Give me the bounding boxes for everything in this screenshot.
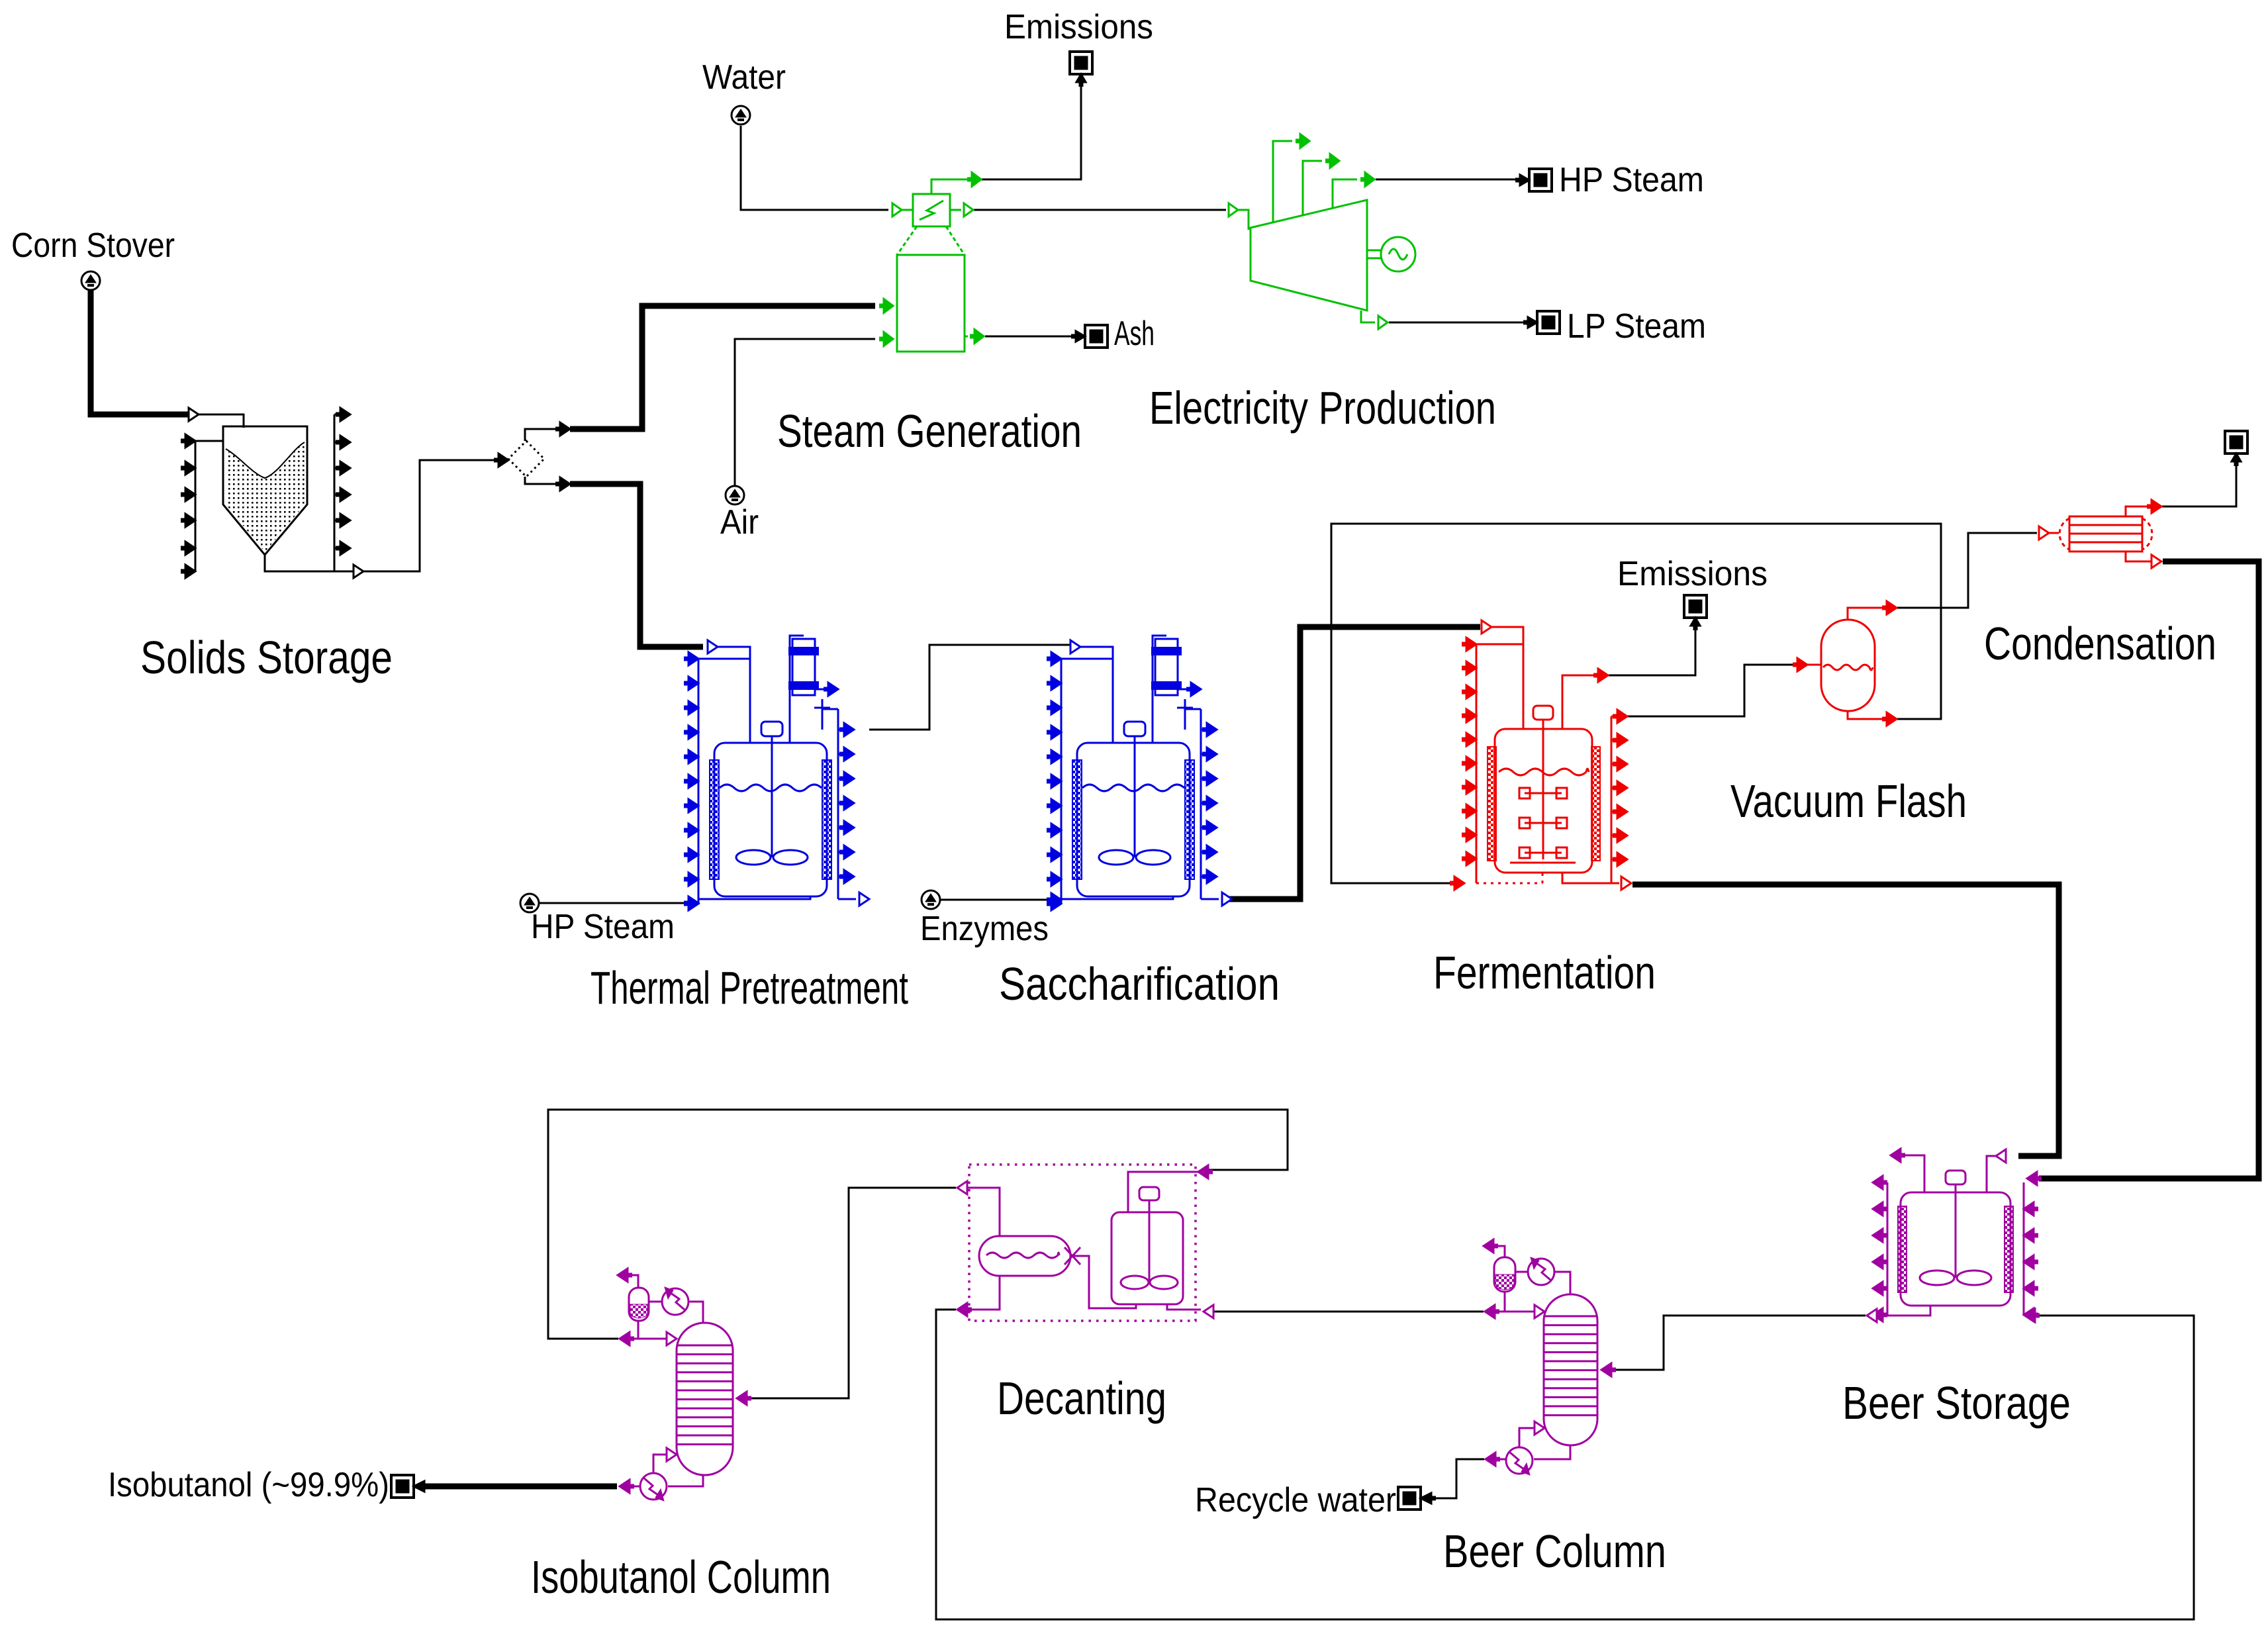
fermenter feed downcomer: [1491, 627, 1523, 729]
hopper left port arrow 5: [185, 542, 195, 555]
agitator shaft: [1134, 736, 1136, 857]
outlet port arrow: [859, 892, 869, 906]
left port column: [698, 659, 700, 904]
condenser riser: [790, 636, 804, 743]
isobutanol column tray 11: [677, 1435, 733, 1437]
isobutanol column tray 7: [677, 1398, 733, 1400]
wire enzymes to saccharification: [941, 899, 1051, 901]
isobutanol column tray 6: [677, 1390, 733, 1392]
mixer impeller: [1121, 1276, 1149, 1289]
wire corn stover feed: [91, 290, 190, 414]
source Enzymes: [921, 890, 940, 909]
decanter bottoms out: [967, 1276, 1000, 1310]
fermenter right port arrow 6: [1617, 829, 1627, 842]
fermenter right port arrow 5: [1617, 805, 1627, 818]
svg-text:Steam Generation: Steam Generation: [777, 405, 1082, 457]
beer storage top inlet: [1987, 1156, 1996, 1192]
beer storage right arrow 5: [2024, 1308, 2034, 1321]
flash vapor outlet: [1848, 608, 1886, 620]
isobutanol feed arrow: [737, 1392, 747, 1405]
isobutanol column tray 12: [677, 1443, 733, 1445]
impeller: [736, 850, 771, 865]
svg-text:Enzymes: Enzymes: [920, 910, 1049, 948]
beer storage impeller: [1920, 1270, 1954, 1285]
wire condensation to beer storage: [2039, 561, 2259, 1178]
beer column tray 3: [1544, 1333, 1597, 1335]
fermenter vent riser: [1562, 675, 1597, 729]
hopper vessel Solids Storage: [223, 426, 307, 555]
hopper right port arrow 5: [340, 514, 350, 527]
beer column vapor return: [1519, 1428, 1534, 1447]
beer column tray 1: [1544, 1316, 1597, 1318]
right port column: [1200, 709, 1202, 899]
isobutanol column tray 9: [677, 1416, 733, 1418]
mixer motor: [1139, 1187, 1159, 1200]
beer column tray 4: [1544, 1342, 1597, 1344]
condenser vent arrow: [815, 689, 829, 691]
beer column tray 2: [1544, 1324, 1597, 1326]
hopper left port column: [195, 441, 197, 571]
hopper granular fill: [226, 442, 305, 552]
wire beer column bottoms to recycle water: [1431, 1459, 1484, 1498]
beer column tray 8: [1544, 1378, 1597, 1380]
svg-text:Ash: Ash: [1114, 314, 1155, 353]
isobutanol vent: [628, 1275, 638, 1288]
decanter interface: [986, 1253, 1059, 1258]
outlet port arrow: [1222, 892, 1232, 906]
liquid level: [720, 785, 822, 791]
beer column bottoms line: [1534, 1445, 1570, 1459]
condenser riser: [1153, 636, 1166, 743]
fermenter left port arrow 2: [1466, 661, 1476, 675]
isobutanol bottoms line: [668, 1475, 703, 1486]
isobutanol column tray 5: [677, 1380, 733, 1382]
svg-text:Condensation: Condensation: [1984, 618, 2216, 669]
decanting dotted box: [969, 1165, 1196, 1321]
decanting inlet top right: [1198, 1165, 1208, 1178]
sink Emissions top: [1070, 52, 1092, 74]
fermenter right port arrow 7: [1617, 853, 1627, 866]
fermenter left port arrow 7: [1466, 781, 1476, 794]
isobutanol reboiler hx: [640, 1473, 667, 1500]
isobutanol column tray 8: [677, 1408, 733, 1410]
fermenter shaft: [1542, 720, 1544, 859]
beer storage shaft: [1955, 1184, 1957, 1278]
wire isobutanol product to sink: [425, 1484, 617, 1490]
beer storage right arrow 2: [2024, 1229, 2034, 1242]
jacket band right: [822, 760, 831, 879]
beer storage left arrow 6: [1873, 1308, 1883, 1321]
wire ash out: [985, 336, 1074, 338]
hopper outlet arrow: [354, 565, 363, 578]
vent tee: [1184, 699, 1186, 730]
beer storage right port column: [2023, 1182, 2025, 1316]
svg-text:HP Steam: HP Steam: [531, 908, 675, 946]
wire beer storage to beer column: [1612, 1316, 1866, 1370]
generator link: [1367, 250, 1381, 252]
beer storage motor: [1946, 1171, 1965, 1184]
hopper right port column: [334, 414, 336, 571]
boiler heat exchanger: [913, 194, 950, 226]
beer storage top outlet: [1901, 1155, 1924, 1192]
boiler ash arrow: [965, 336, 968, 338]
svg-text:Electricity Production: Electricity Production: [1149, 382, 1496, 434]
boiler dome: [897, 226, 917, 255]
beer column tray 10: [1544, 1396, 1597, 1398]
wire LP steam out: [1389, 322, 1532, 324]
condenser inlet arrow: [2039, 526, 2049, 540]
isobutanol column vessel: [677, 1323, 733, 1475]
svg-text:LP Steam: LP Steam: [1567, 307, 1706, 346]
wire condensate to sink: [2161, 461, 2236, 506]
feed port arrow: [708, 640, 718, 653]
fermenter left port arrow 8: [1466, 804, 1476, 818]
beer storage left port column: [1887, 1182, 1889, 1316]
fermenter left port arrow 4: [1466, 709, 1476, 722]
turbine LP outlet: [1361, 311, 1375, 322]
wire boiler to turbine: [973, 209, 1226, 211]
feed downcomer: [1080, 647, 1113, 743]
fermenter outlet arrow: [1621, 877, 1631, 890]
wire flash vapor to condensation: [1897, 533, 2037, 608]
decanter drum: [979, 1236, 1070, 1276]
fermenter right port column: [1611, 716, 1613, 883]
isobutanol column tray 10: [677, 1425, 733, 1427]
wire beer column distillate to decanting: [1213, 1311, 1484, 1313]
fermenter left port arrow 6: [1466, 757, 1476, 770]
beer column tray 6: [1544, 1361, 1597, 1363]
wire fermentation vent to emissions: [1608, 627, 1695, 675]
wire into hopper: [199, 414, 244, 428]
beer storage jacket right: [2005, 1206, 2013, 1292]
beer storage left arrow 2: [1873, 1202, 1883, 1216]
hopper right port arrow 2: [340, 436, 350, 449]
wire splitter to pretreatment: [525, 477, 559, 484]
feed downcomer: [718, 647, 750, 743]
condenser shell: [2059, 518, 2069, 550]
isobutanol condensate line: [629, 1321, 638, 1339]
beer column vent: [1493, 1246, 1505, 1257]
beer column condenser drum: [1494, 1257, 1515, 1292]
fermenter jacket right: [1591, 747, 1600, 861]
fermenter left port arrow 5: [1466, 733, 1476, 746]
condenser tube 1: [2069, 524, 2142, 526]
turbine extraction 2: [1303, 161, 1322, 215]
fermenter left port arrow 9: [1466, 828, 1476, 841]
svg-text:Isobutanol Column: Isobutanol Column: [531, 1551, 831, 1603]
fermenter left port column: [1476, 644, 1478, 883]
source HP Steam: [520, 894, 539, 912]
beer column tray 7: [1544, 1369, 1597, 1371]
beer column vessel: [1544, 1294, 1597, 1445]
wire air to boiler: [735, 339, 875, 486]
beer storage left arrow 5: [1873, 1282, 1883, 1295]
boiler air arrow: [884, 332, 893, 346]
reactor vessel: [714, 743, 827, 896]
mixer bottom port: [1167, 1304, 1201, 1310]
svg-text:Decanting: Decanting: [997, 1372, 1166, 1424]
svg-text:Thermal Pretreatment: Thermal Pretreatment: [591, 962, 908, 1014]
splitter inlet arrow: [498, 454, 508, 467]
beer storage vessel: [1901, 1192, 2010, 1306]
hopper inlet arrow: [189, 408, 199, 421]
svg-text:Recycle water: Recycle water: [1195, 1481, 1396, 1519]
condenser: [792, 639, 815, 695]
wire pretreatment to saccharification: [869, 645, 1073, 730]
agitator shaft: [771, 736, 773, 857]
hopper right port arrow 4: [340, 488, 350, 501]
decanting inlet left: [957, 1181, 967, 1194]
condenser: [1155, 639, 1178, 695]
svg-text:Corn Stover: Corn Stover: [11, 226, 175, 265]
flash drum: [1821, 620, 1875, 711]
fermenter bottom outlet: [1562, 873, 1619, 883]
beer storage right arrow 1: [2024, 1202, 2034, 1216]
beer storage jacket left: [1898, 1206, 1907, 1292]
fermenter right port arrow 2: [1617, 734, 1627, 747]
isobutanol condenser hx: [662, 1288, 688, 1315]
fermenter right port arrow 1: [1617, 710, 1627, 723]
agitator motor: [1124, 722, 1145, 736]
boiler hx inlet arrow: [892, 203, 902, 216]
beer storage left arrow 1: [1873, 1176, 1883, 1189]
beer storage left arrow 4: [1873, 1255, 1883, 1269]
boiler feed arrow: [884, 299, 893, 313]
flash liquid level: [1823, 665, 1873, 670]
hopper left port arrow 6: [185, 565, 195, 578]
turbine body: [1251, 200, 1367, 311]
boiler flue stub: [931, 179, 970, 194]
turbine inlet arrow: [1229, 203, 1238, 216]
fermenter jacket left: [1488, 747, 1496, 861]
isobutanol column tray 4: [677, 1371, 733, 1373]
beer column reboiler hx: [1506, 1447, 1533, 1474]
hopper left port arrow 3: [185, 488, 195, 501]
vessel bottom outlet: [698, 896, 810, 899]
right port column: [837, 709, 839, 899]
svg-text:Air: Air: [720, 503, 759, 542]
fermenter vessel: [1495, 729, 1592, 873]
turbine extraction 1: [1273, 141, 1292, 222]
svg-text:Emissions: Emissions: [1004, 8, 1153, 46]
feed port arrow: [1070, 640, 1080, 653]
splitter diamond: [508, 441, 544, 477]
isobutanol vapor return: [653, 1455, 666, 1473]
fermenter paddle level 1: [1525, 792, 1562, 794]
turbine extraction 3 HP steam: [1333, 179, 1357, 209]
hopper left port arrow 2: [185, 461, 195, 475]
jacket band left: [1072, 760, 1082, 879]
vent tee: [822, 699, 824, 730]
svg-text:Fermentation: Fermentation: [1433, 947, 1656, 998]
beer storage bottom outlet: [1887, 1306, 1930, 1316]
wire splitter to boiler: [525, 429, 559, 441]
sink Isobutanol product: [391, 1475, 414, 1498]
flash bottoms outlet: [1848, 711, 1886, 719]
svg-text:Solids Storage: Solids Storage: [140, 632, 393, 683]
sink Recycle water: [1398, 1487, 1421, 1510]
svg-text:Emissions: Emissions: [1617, 555, 1768, 593]
svg-text:Isobutanol (~99.9%): Isobutanol (~99.9%): [108, 1466, 389, 1504]
hopper left port arrow 4: [185, 514, 195, 527]
fermenter liquid level: [1499, 769, 1589, 775]
generator: [1381, 237, 1415, 271]
fermenter right port arrow 4: [1617, 781, 1627, 794]
wire decanting aqueous big loop to beer storage: [936, 1310, 2194, 1619]
flash inlet arrow: [1797, 658, 1807, 671]
boiler body: [897, 255, 965, 352]
beer column tray 12: [1544, 1414, 1597, 1416]
decanter nozzle X: [1064, 1247, 1080, 1265]
isobutanol overhead line: [689, 1302, 703, 1323]
fermenter motor: [1533, 706, 1553, 720]
svg-text:Beer Storage: Beer Storage: [1842, 1377, 2071, 1429]
condenser tube 2: [2069, 533, 2142, 535]
isobutanol column tray 1: [677, 1345, 733, 1347]
fermenter left port arrow 10: [1466, 852, 1476, 865]
wire fermentation broth to beer storage: [1632, 885, 2059, 1156]
beer column condensate line: [1495, 1292, 1505, 1312]
beer column tray 11: [1544, 1406, 1597, 1408]
condenser tube 3: [2069, 542, 2142, 544]
svg-text:Saccharification: Saccharification: [999, 958, 1280, 1010]
fermenter bottom line: [1510, 862, 1576, 864]
reactor vessel: [1077, 743, 1190, 896]
wire water to boiler: [741, 126, 888, 210]
beer storage right arrow 3: [2024, 1255, 2034, 1269]
beer column tray 5: [1544, 1351, 1597, 1353]
svg-text:Water: Water: [702, 58, 786, 97]
hopper right port arrow 3: [340, 461, 350, 475]
sink condensate: [2225, 431, 2247, 454]
sink Emissions fermentation: [1684, 595, 1707, 618]
left port column: [1061, 659, 1063, 904]
impeller: [1099, 850, 1133, 865]
hopper right port arrow 6: [340, 542, 350, 555]
isobutanol column tray 3: [677, 1363, 733, 1365]
wire saccharification to fermentation: [1227, 627, 1480, 899]
source Air: [726, 486, 744, 504]
sink Ash: [1085, 325, 1108, 348]
wire hopper to splitter: [265, 460, 494, 571]
beer column overhead line: [1555, 1272, 1570, 1294]
jacket band right: [1185, 760, 1194, 879]
svg-text:Beer Column: Beer Column: [1443, 1525, 1666, 1577]
svg-text:HP Steam: HP Steam: [1559, 161, 1704, 199]
agitator motor: [761, 722, 782, 736]
source Water: [732, 106, 750, 124]
reactor Thermal Pretreatment: [684, 636, 869, 910]
wire fermentation to vacuum flash: [1627, 665, 1796, 716]
fermenter left port arrow 3: [1466, 685, 1476, 698]
isobutanol condenser drum: [629, 1288, 649, 1321]
jacket band left: [710, 760, 719, 879]
wire flash bottoms recycle to fermentation: [1331, 524, 1941, 883]
condenser vent outlet: [2126, 506, 2151, 516]
mixer shaft: [1149, 1200, 1151, 1282]
fermenter paddle level 3: [1525, 852, 1562, 854]
svg-text:Vacuum Flash: Vacuum Flash: [1730, 775, 1967, 827]
wire flue gas to emissions: [981, 83, 1081, 179]
isobutanol column tray 2: [677, 1353, 733, 1355]
beer storage left arrow 3: [1873, 1229, 1883, 1242]
hopper right port arrow 1: [340, 408, 350, 421]
beer column condenser hx: [1528, 1259, 1554, 1285]
condenser liquid outlet: [2126, 551, 2151, 561]
wire decanting organic to isobutanol column: [747, 1188, 956, 1398]
fermenter paddle level 2: [1525, 822, 1562, 824]
sink HP Steam: [1529, 169, 1552, 191]
sink LP Steam: [1537, 311, 1560, 334]
wire HP steam out: [1376, 179, 1524, 181]
beer column tray 9: [1544, 1387, 1597, 1389]
decanter to mixer line: [1074, 1256, 1136, 1308]
condenser vent arrow: [1178, 689, 1192, 691]
mixer tank: [1111, 1212, 1183, 1304]
fermenter left port arrow 1: [1466, 638, 1476, 651]
beer storage right arrow 4: [2024, 1282, 2034, 1295]
beer column feed arrow: [1601, 1363, 1611, 1376]
fermenter right port arrow 3: [1617, 757, 1627, 771]
boiler hx outlet arrow: [950, 209, 961, 211]
fermenter inlet arrow: [1482, 620, 1491, 634]
liquid level: [1082, 785, 1184, 791]
hopper left port arrow 1: [185, 434, 195, 448]
vessel bottom outlet: [1061, 896, 1173, 899]
wire hp steam source to pretreatment: [540, 902, 689, 904]
wire isobutanol overhead loop to decanting: [548, 1110, 1288, 1339]
source Corn Stover: [81, 271, 100, 290]
reactor Saccharification: [1047, 636, 1232, 910]
